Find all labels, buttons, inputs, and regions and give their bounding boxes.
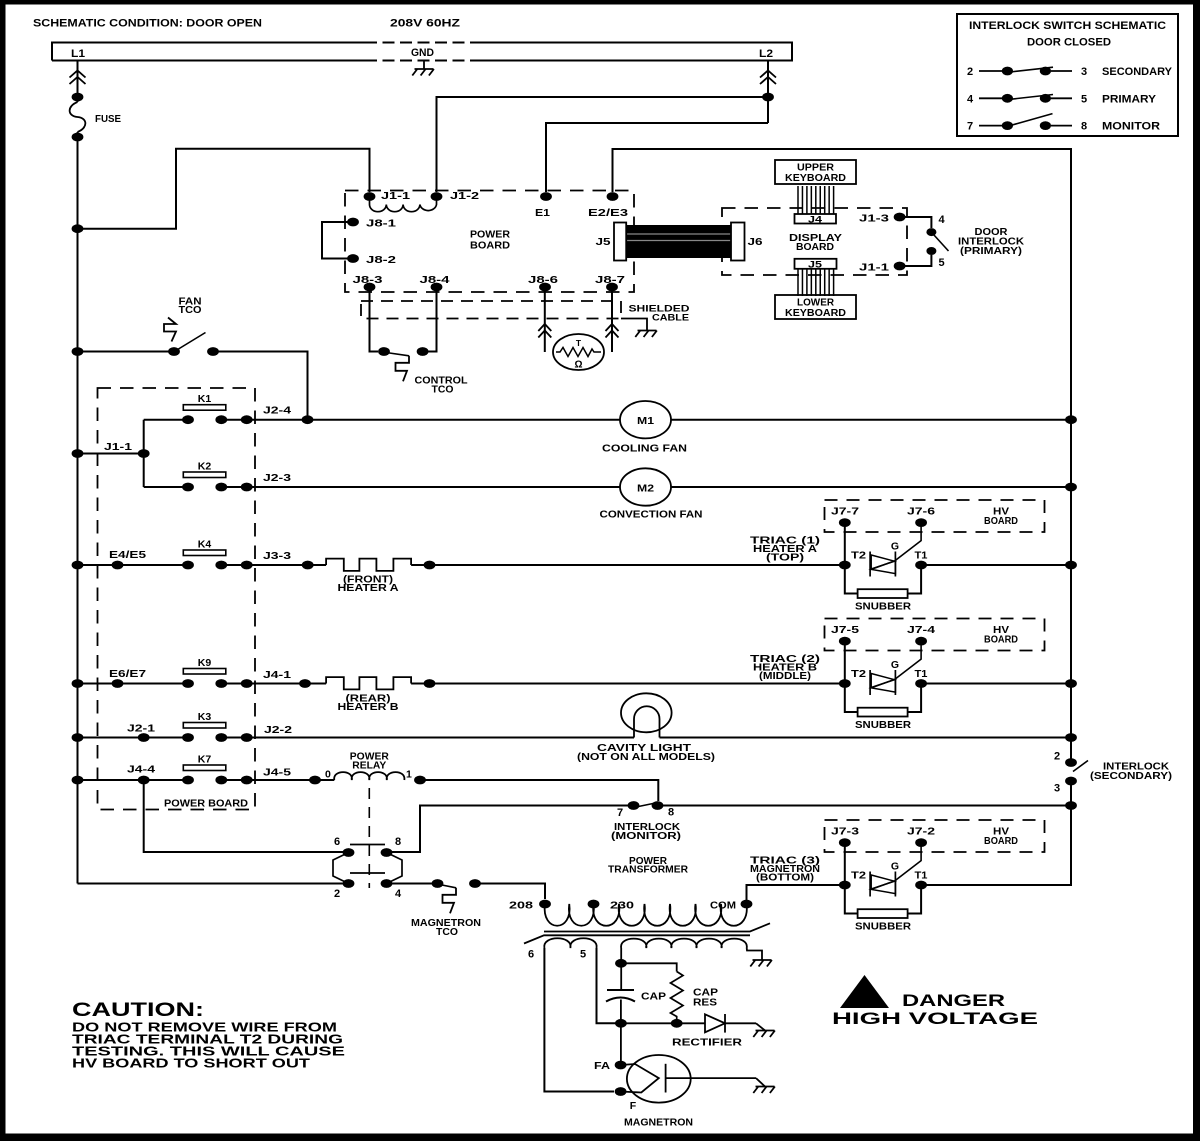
svg-text:G: G (891, 540, 899, 552)
svg-text:T2: T2 (851, 869, 866, 881)
svg-text:POWER BOARD: POWER BOARD (164, 798, 248, 810)
svg-text:HV BOARD TO SHORT OUT: HV BOARD TO SHORT OUT (72, 1056, 310, 1071)
snubber (845, 565, 921, 594)
connector J4-5 (241, 776, 253, 785)
wire coil 1 to interlock monitor 8 (420, 780, 658, 801)
svg-text:KEYBOARD: KEYBOARD (785, 172, 846, 184)
svg-text:F: F (630, 1100, 637, 1112)
svg-text:HEATER A: HEATER A (338, 582, 399, 594)
svg-text:L1: L1 (71, 48, 85, 60)
svg-text:TCO: TCO (179, 304, 202, 316)
triac body (869, 670, 871, 695)
svg-text:2: 2 (1054, 751, 1060, 763)
interlock switch schematic box (957, 14, 1178, 136)
svg-text:5: 5 (1081, 93, 1087, 105)
lower keyboard box (775, 295, 856, 319)
wire: main left bus (77, 132, 79, 884)
svg-text:7: 7 (967, 121, 973, 133)
relay K3 contacts (182, 733, 194, 742)
wire L2 to J1-2 (437, 97, 769, 192)
connector J4-4 (138, 776, 150, 785)
svg-text:SNUBBER: SNUBBER (855, 921, 911, 933)
svg-text:J4-1: J4-1 (263, 669, 291, 681)
svg-text:MAGNETRON: MAGNETRON (624, 1117, 693, 1129)
relay K9 contacts (182, 679, 194, 688)
HV secondary ground (747, 948, 762, 960)
capacitor CAP (607, 989, 634, 991)
wire right bus lower segment (921, 781, 1071, 885)
motor M1 cooling fan (620, 401, 671, 438)
wire COM to triac 3 T2 (747, 885, 845, 904)
svg-text:G: G (891, 860, 899, 872)
svg-text:6: 6 (528, 949, 534, 961)
svg-text:J2-4: J2-4 (263, 405, 291, 417)
wire contact 4 to magnetron TCO (387, 883, 438, 885)
relay K1 contacts (182, 415, 194, 424)
connector J1-1 (power board) (364, 192, 376, 201)
svg-text:J1-1: J1-1 (381, 190, 410, 202)
svg-text:BOARD: BOARD (984, 634, 1018, 646)
svg-text:K3: K3 (198, 711, 212, 723)
wire gate from J7-2 (895, 847, 921, 881)
wire J7-7 to T2 (844, 523, 846, 565)
connector J2-3 (241, 483, 253, 492)
svg-text:K4: K4 (198, 539, 212, 551)
svg-text:J1-2: J1-2 (450, 190, 479, 202)
power relay coil (309, 776, 321, 785)
wire J7-3 to T2 (844, 843, 846, 885)
connector J3-3 (241, 561, 253, 570)
heater A element (326, 559, 411, 571)
svg-text:J8-3: J8-3 (353, 274, 383, 286)
node E4/E5 (112, 561, 124, 570)
connector J1-2 (431, 192, 443, 201)
ground (mains) (423, 61, 425, 70)
connector J8-3 (364, 283, 376, 292)
node T2 (839, 561, 851, 570)
svg-text:SNUBBER: SNUBBER (855, 719, 911, 731)
svg-text:4: 4 (939, 214, 946, 226)
svg-text:T1: T1 (915, 549, 928, 561)
junction dots on left bus (72, 224, 84, 233)
svg-text:SECONDARY: SECONDARY (1102, 66, 1173, 78)
ribbon upper keyboard to J4 (797, 186, 799, 214)
wire L2 drop (767, 61, 769, 124)
svg-text:TCO: TCO (436, 926, 458, 938)
shielded cable ground (621, 319, 647, 331)
svg-text:RELAY: RELAY (352, 760, 386, 772)
svg-text:BOARD: BOARD (470, 240, 510, 252)
primary winding taps 208/230/COM (539, 900, 551, 909)
relay K7 row (power relay) (78, 779, 189, 781)
svg-text:8: 8 (668, 807, 674, 819)
svg-text:J8-6: J8-6 (528, 274, 558, 286)
svg-text:3: 3 (1081, 66, 1087, 78)
svg-text:0: 0 (325, 768, 331, 780)
svg-text:M1: M1 (637, 415, 654, 427)
svg-text:J7-5: J7-5 (831, 624, 859, 636)
connector J2-4 (241, 415, 253, 424)
wire triac1 T1 to right bus (921, 564, 1071, 566)
svg-text:E4/E5: E4/E5 (109, 549, 146, 561)
wire J8-3 down (370, 287, 379, 352)
svg-text:MONITOR: MONITOR (1102, 121, 1160, 133)
svg-text:FUSE: FUSE (95, 113, 121, 125)
svg-text:GND: GND (411, 47, 434, 59)
relay bank dashed box (power board) (98, 388, 256, 810)
relay K9 row (heater B) (78, 683, 189, 685)
wire J8-4 down (428, 287, 437, 352)
svg-text:5: 5 (580, 949, 586, 961)
svg-text:M2: M2 (637, 482, 654, 494)
node E2/E3 (607, 192, 619, 201)
wire triac2 T1 to right bus (921, 683, 1071, 685)
svg-text:BOARD: BOARD (984, 835, 1018, 847)
svg-text:PRIMARY: PRIMARY (1102, 93, 1157, 105)
connector J1-3 (door interlock) (894, 213, 906, 222)
wire gate from J7-4 (895, 645, 921, 679)
node: fan tco junction (302, 415, 314, 424)
relay K7 contact bar (183, 765, 226, 771)
relay K9 contact bar (183, 669, 226, 675)
svg-text:8: 8 (1081, 121, 1087, 133)
svg-text:J7-6: J7-6 (907, 506, 935, 518)
node E6/E7 (112, 679, 124, 688)
snubber (845, 885, 921, 914)
svg-text:Ω: Ω (574, 360, 582, 371)
power bus bar L1/GND/L2 (52, 43, 792, 61)
wire L1 drop (77, 61, 79, 103)
rectifier diode (705, 1014, 725, 1032)
svg-text:TCO: TCO (432, 384, 454, 396)
svg-text:(NOT ON ALL MODELS): (NOT ON ALL MODELS) (577, 751, 715, 763)
svg-text:HIGH VOLTAGE: HIGH VOLTAGE (832, 1009, 1038, 1028)
interlock secondary switch on right bus (1065, 758, 1077, 767)
danger high voltage (840, 975, 889, 1008)
svg-text:G: G (891, 659, 899, 671)
svg-text:J4-4: J4-4 (127, 763, 155, 775)
svg-text:CAUTION:: CAUTION: (72, 1000, 204, 1021)
magnetron TCO (432, 879, 444, 888)
svg-text:J5: J5 (596, 236, 611, 248)
svg-text:K7: K7 (198, 754, 212, 766)
svg-text:J6: J6 (748, 236, 763, 248)
wire J1-1 branch (78, 453, 144, 455)
connector J8-1 (347, 218, 359, 227)
RTD (553, 334, 604, 370)
wire filament 6 to magnetron F (544, 948, 614, 1092)
svg-text:2: 2 (967, 66, 973, 78)
connector J8-6 (539, 283, 551, 292)
wire filament 5 to cap node (597, 948, 621, 1023)
svg-text:DOOR CLOSED: DOOR CLOSED (1027, 37, 1111, 49)
svg-text:J2-1: J2-1 (127, 722, 155, 734)
node E1 (540, 192, 552, 201)
wire cap node to magnetron FA (620, 1023, 622, 1065)
connector J8-7 (606, 283, 618, 292)
node T2 (839, 881, 851, 890)
svg-text:J7-4: J7-4 (907, 624, 935, 636)
connector J2-1 (138, 733, 150, 742)
relay K2 row (144, 486, 188, 488)
transformer core (524, 923, 770, 943)
wire E2/E3 up and over to right bus (613, 149, 1072, 763)
svg-text:J5: J5 (808, 259, 823, 270)
connector J4 box (795, 214, 837, 224)
svg-text:(BOTTOM): (BOTTOM) (756, 872, 814, 884)
wire J4-4 to contact 6 (144, 780, 343, 852)
wire left bus to contact 2 (78, 883, 344, 885)
HV secondary winding (621, 939, 747, 948)
svg-text:230: 230 (610, 900, 634, 912)
svg-text:RECTIFIER: RECTIFIER (672, 1037, 743, 1049)
svg-text:J7-2: J7-2 (907, 826, 935, 838)
wire monitor 8 to right bus (658, 805, 1072, 807)
svg-text:J1-3: J1-3 (859, 213, 889, 225)
relay K4 contact bar (183, 550, 226, 556)
svg-text:K1: K1 (198, 393, 212, 405)
svg-text:BOARD: BOARD (796, 241, 834, 253)
svg-text:E1: E1 (535, 207, 550, 219)
node T1 (915, 561, 927, 570)
svg-text:T2: T2 (851, 668, 866, 680)
shielded cable dashed box (361, 301, 621, 319)
svg-text:J1-1: J1-1 (859, 262, 889, 274)
svg-text:J8-1: J8-1 (366, 218, 396, 230)
bottom node row (615, 1019, 627, 1028)
svg-text:CABLE: CABLE (652, 313, 689, 324)
wire fan TCO to J2-4 node (213, 352, 308, 420)
relay K1 row (144, 419, 188, 421)
wire J8-7 down to RTD (611, 287, 613, 352)
svg-text:J2-2: J2-2 (264, 724, 292, 736)
motor M2 convection fan (620, 468, 671, 505)
fan TCO (78, 351, 175, 353)
relay K7 contacts (182, 776, 194, 785)
svg-text:J8-7: J8-7 (595, 274, 625, 286)
HV board dashed box (825, 619, 1045, 651)
svg-text:BOARD: BOARD (984, 515, 1018, 527)
triac body (869, 552, 871, 577)
relay K4 row (heater A) (78, 564, 189, 566)
HV board dashed box (825, 820, 1045, 852)
svg-text:COM: COM (710, 900, 736, 912)
svg-text:(MONITOR): (MONITOR) (611, 830, 681, 842)
svg-text:CONVECTION FAN: CONVECTION FAN (600, 508, 703, 520)
svg-text:T1: T1 (915, 668, 928, 680)
svg-text:FA: FA (594, 1060, 610, 1072)
display board dashed box (722, 208, 907, 275)
wire J8-6 down to RTD (544, 287, 546, 352)
cavity light lamp (621, 693, 672, 732)
wire M2 to right bus (671, 486, 1071, 488)
connector J8-4 (431, 283, 443, 292)
coil between J1-1 and J1-2 (370, 197, 437, 212)
svg-text:1: 1 (406, 768, 412, 780)
svg-text:RES: RES (693, 997, 717, 1009)
svg-text:SNUBBER: SNUBBER (855, 601, 911, 613)
fuse (70, 102, 86, 132)
door interlock primary switch (905, 217, 931, 228)
wire TCO to transformer 208 tap (475, 884, 545, 900)
cap res resistor (671, 972, 684, 1024)
svg-text:TRANSFORMER: TRANSFORMER (608, 864, 688, 876)
svg-text:(MIDDLE): (MIDDLE) (759, 670, 811, 682)
connector J8-2 (347, 254, 359, 263)
wire jumper J8-1 to J8-2 (322, 222, 353, 259)
wire L2 to E1 (546, 123, 768, 192)
relay K3 row (cavity light) (78, 737, 189, 739)
connector J1-1 (door interlock) (894, 262, 906, 271)
svg-text:J7-3: J7-3 (831, 826, 859, 838)
wire M1 to right bus (671, 419, 1071, 421)
svg-text:J2-3: J2-3 (263, 472, 291, 484)
ribbon cable J5-J6 (626, 225, 731, 258)
heater B element (326, 677, 411, 689)
svg-text:2: 2 (334, 888, 340, 900)
svg-text:208: 208 (509, 900, 533, 912)
connector J4-1 (241, 679, 253, 688)
svg-text:J1-1: J1-1 (104, 441, 132, 453)
svg-text:KEYBOARD: KEYBOARD (785, 307, 846, 319)
wire heater B to triac 2 (411, 683, 845, 685)
svg-text:COOLING FAN: COOLING FAN (602, 443, 687, 455)
svg-text:J4: J4 (808, 215, 823, 226)
svg-text:SCHEMATIC CONDITION: DOOR OPEN: SCHEMATIC CONDITION: DOOR OPEN (33, 18, 262, 30)
relay K3 contact bar (183, 723, 226, 729)
wire J7-5 to T2 (844, 641, 846, 683)
magnetron (615, 1061, 627, 1070)
power relay armature contacts 6/8/2/4 (350, 844, 385, 846)
svg-text:T1: T1 (915, 869, 928, 881)
svg-text:6: 6 (334, 836, 340, 848)
node T1 (915, 679, 927, 688)
svg-text:7: 7 (617, 807, 623, 819)
snubber (845, 684, 921, 713)
svg-text:(PRIMARY): (PRIMARY) (960, 245, 1022, 257)
svg-text:K2: K2 (198, 461, 212, 473)
upper keyboard box (775, 160, 856, 184)
connector J2-2 (241, 733, 253, 742)
svg-text:208V 60HZ: 208V 60HZ (390, 18, 460, 30)
svg-text:HEATER B: HEATER B (338, 701, 399, 713)
svg-text:T2: T2 (851, 549, 866, 561)
svg-text:J3-3: J3-3 (263, 550, 291, 562)
svg-text:J7-7: J7-7 (831, 506, 859, 518)
triac body (869, 872, 871, 897)
wire heater A to triac 1 (411, 564, 845, 566)
svg-text:L2: L2 (759, 48, 773, 60)
relay K2 contacts (182, 483, 194, 492)
control TCO (378, 347, 390, 356)
svg-text:(TOP): (TOP) (766, 552, 804, 564)
svg-text:CAP: CAP (641, 991, 666, 1003)
filament secondary 6/5 (544, 938, 596, 948)
power relay actuator dashed line (368, 788, 370, 888)
svg-text:E6/E7: E6/E7 (109, 668, 146, 680)
power board dashed box (345, 191, 634, 293)
ribbon J5 to lower keyboard (797, 269, 799, 296)
relay K2 contact bar (183, 472, 226, 478)
node T2 (839, 679, 851, 688)
svg-text:DANGER: DANGER (902, 991, 1005, 1010)
node T1 (915, 881, 927, 890)
cap node wiring (620, 958, 622, 990)
svg-text:J4-5: J4-5 (263, 766, 291, 778)
connector J5 box (795, 259, 837, 269)
wire contact 8 to interlock monitor (387, 806, 629, 853)
svg-text:4: 4 (967, 93, 974, 105)
interlock monitor switch (628, 801, 640, 810)
svg-text:INTERLOCK SWITCH SCHEMATIC: INTERLOCK SWITCH SCHEMATIC (969, 20, 1166, 32)
HV board dashed box (825, 500, 1045, 532)
svg-text:8: 8 (395, 836, 401, 848)
svg-text:E2/E3: E2/E3 (588, 207, 628, 219)
svg-text:3: 3 (1054, 783, 1060, 795)
relay K1 contact bar (183, 405, 226, 411)
wire gate from J7-6 (895, 527, 921, 561)
wire lamp to right bus (660, 737, 1072, 739)
wire bus dot to J1-1 (78, 149, 370, 229)
svg-text:4: 4 (395, 888, 402, 900)
svg-text:(SECONDARY): (SECONDARY) (1090, 770, 1172, 782)
svg-text:5: 5 (939, 257, 945, 269)
svg-text:K9: K9 (198, 657, 212, 669)
svg-text:J8-4: J8-4 (420, 274, 450, 286)
svg-text:J8-2: J8-2 (366, 254, 396, 266)
svg-text:T: T (576, 338, 582, 348)
relay K4 contacts (182, 561, 194, 570)
node J1-1 (relay bank) (138, 449, 150, 458)
